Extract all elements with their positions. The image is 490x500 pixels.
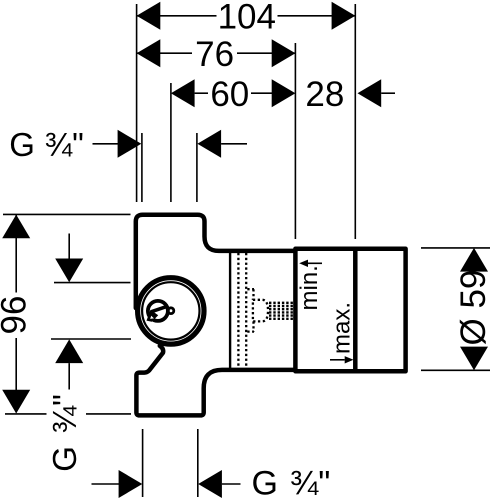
extension line bottom port left x=142.6: [142, 429, 144, 497]
svg-text:G ¾": G ¾": [46, 394, 83, 472]
extension line left body edge x=136.6: [136, 4, 138, 202]
dimension 60: [171, 75, 296, 114]
flange right face line x=230: [229, 253, 231, 369]
hidden spindle shaft hatch: [269, 303, 294, 319]
extension line side port top y=282.6: [54, 282, 131, 284]
dimension 104: [137, 0, 356, 37]
dimension 96: [0, 215, 34, 414]
extension line right face x=355.3: [354, 4, 356, 239]
hidden thread tube left dotted: [237, 253, 239, 367]
dimension 76: [137, 35, 296, 74]
hidden funnel neck bottom: [252, 321, 254, 331]
svg-text:G ¾": G ¾": [9, 126, 84, 163]
wall plane line x=295.4: [293, 249, 298, 371]
hidden valve cup dotted: [253, 300, 268, 322]
spindle circle: [148, 301, 168, 321]
svg-text:min.: min.: [296, 265, 323, 310]
svg-text:76: 76: [195, 35, 234, 74]
min indicator: [296, 260, 323, 311]
extension line bottom port right x=197.8: [197, 429, 199, 497]
boss outer circle: [138, 278, 204, 344]
extension line dia59 bottom: [421, 369, 490, 371]
spindle lever: [151, 306, 167, 312]
max indicator: [329, 302, 356, 364]
divider line x=355.3: [353, 249, 358, 371]
hidden funnel top stub: [247, 288, 254, 290]
svg-text:Ø 59: Ø 59: [454, 270, 490, 346]
dimension dia 59: [454, 248, 490, 370]
hidden thread tube right dotted: [245, 253, 247, 367]
label G 3/4 inch top: [9, 126, 247, 163]
dimension 28: [305, 75, 395, 114]
svg-text:28: 28: [305, 75, 344, 114]
svg-text:96: 96: [0, 296, 34, 335]
svg-text:104: 104: [218, 0, 276, 37]
extension line port centerline x=170.9: [170, 83, 172, 202]
bottom G 3/4 arrows: [92, 470, 241, 498]
hidden funnel bottom stub: [247, 330, 254, 332]
svg-text:G ¾": G ¾": [252, 465, 331, 500]
svg-text:60: 60: [210, 75, 249, 114]
extension line 96 bottom y=413.9: [5, 413, 47, 415]
spindle knob circle: [168, 308, 174, 314]
hidden funnel neck top: [252, 289, 254, 300]
extension line G3/4 thread left x=141.9: [141, 133, 143, 202]
extension line 96 top y=214.4: [3, 213, 131, 215]
extension line G3/4 thread right x=196.9: [196, 133, 198, 202]
body outline: [136, 215, 406, 416]
spindle lever wedge: [147, 310, 159, 322]
extension line side port bottom y=339: [51, 338, 131, 340]
boss inner circle: [142, 282, 199, 339]
spindle lever wedge notch: [150, 316, 154, 319]
extension line wall plane x=295.4: [294, 43, 296, 239]
extension line dia59 top: [421, 247, 490, 249]
side port G 3/4 arrows: [55, 234, 83, 390]
svg-text:max.: max.: [329, 302, 356, 354]
